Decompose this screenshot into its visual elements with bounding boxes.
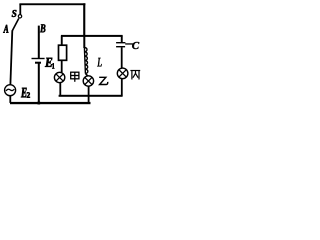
wire middle distribution rail	[61, 35, 123, 37]
wire inductor branch upper	[83, 36, 85, 48]
wire resistor branch upper	[61, 36, 63, 46]
wire lamp 甲 to bottom-mid rail	[59, 83, 61, 97]
AC source E2	[5, 85, 16, 96]
resistor R	[59, 45, 67, 60]
label S	[12, 10, 17, 17]
wire resistor to lamp	[61, 61, 63, 73]
label 乙	[99, 77, 108, 84]
wire top-right vertical drop	[83, 3, 85, 36]
label 甲	[71, 72, 79, 82]
wire B branch lower	[38, 64, 40, 104]
node B	[40, 24, 45, 32]
wire below AC source	[9, 96, 11, 103]
switch S	[12, 4, 21, 31]
battery E1	[32, 58, 45, 64]
wire lamp 乙 to bottom rail	[88, 86, 90, 103]
wire capacitor to lamp 丙	[121, 47, 123, 68]
capacitor C	[116, 42, 133, 47]
label C	[132, 42, 139, 49]
wire bottom-mid rail	[59, 95, 123, 97]
label L	[97, 58, 102, 67]
wire bottom-left rail	[10, 102, 91, 104]
wire lamp 丙 to bottom-mid rail	[121, 79, 123, 96]
lamp 甲	[54, 72, 64, 82]
inductor L	[84, 48, 88, 77]
wire top rail	[19, 3, 85, 5]
label 丙	[130, 71, 140, 80]
lamp 乙	[83, 76, 93, 86]
junction B branch / bottom rail	[38, 102, 41, 105]
label E2	[21, 88, 30, 98]
node A	[3, 25, 8, 33]
lamp 丙	[117, 68, 128, 79]
label E1	[45, 58, 54, 69]
wire capacitor branch drop	[121, 36, 123, 43]
wire B branch upper	[38, 26, 40, 59]
wire left rail (A branch)	[10, 30, 12, 84]
